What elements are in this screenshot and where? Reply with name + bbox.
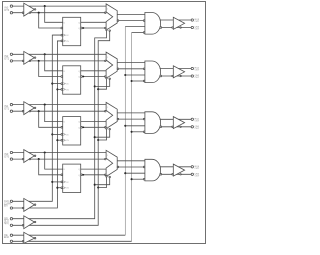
svg-text:1: 1 <box>107 57 108 59</box>
svg-text:DT1: DT1 <box>4 108 9 111</box>
svg-text:0: 0 <box>107 28 108 30</box>
svg-text:S[0]: S[0] <box>4 222 9 225</box>
svg-text:OUT: OUT <box>195 128 200 130</box>
svg-text:EN2: EN2 <box>4 236 9 239</box>
svg-text:DT2: DT2 <box>4 57 9 60</box>
svg-text:OUT: OUT <box>195 176 200 178</box>
svg-text:OUT: OUT <box>195 77 200 79</box>
svg-text:0: 0 <box>107 175 108 177</box>
svg-text:0: 0 <box>107 77 108 79</box>
svg-text:DT0: DT0 <box>4 156 9 159</box>
svg-text:1: 1 <box>107 107 108 109</box>
svg-text:1: 1 <box>107 155 108 157</box>
svg-text:OUT: OUT <box>195 29 200 31</box>
svg-text:OUT: OUT <box>195 21 200 23</box>
svg-text:EN: EN <box>4 205 8 208</box>
svg-text:OUT: OUT <box>195 168 200 170</box>
svg-text:OUT: OUT <box>195 121 200 123</box>
svg-text:1: 1 <box>107 9 108 11</box>
svg-text:DT3: DT3 <box>4 9 9 12</box>
svg-text:OUT: OUT <box>195 70 200 72</box>
svg-text:0: 0 <box>107 127 108 129</box>
